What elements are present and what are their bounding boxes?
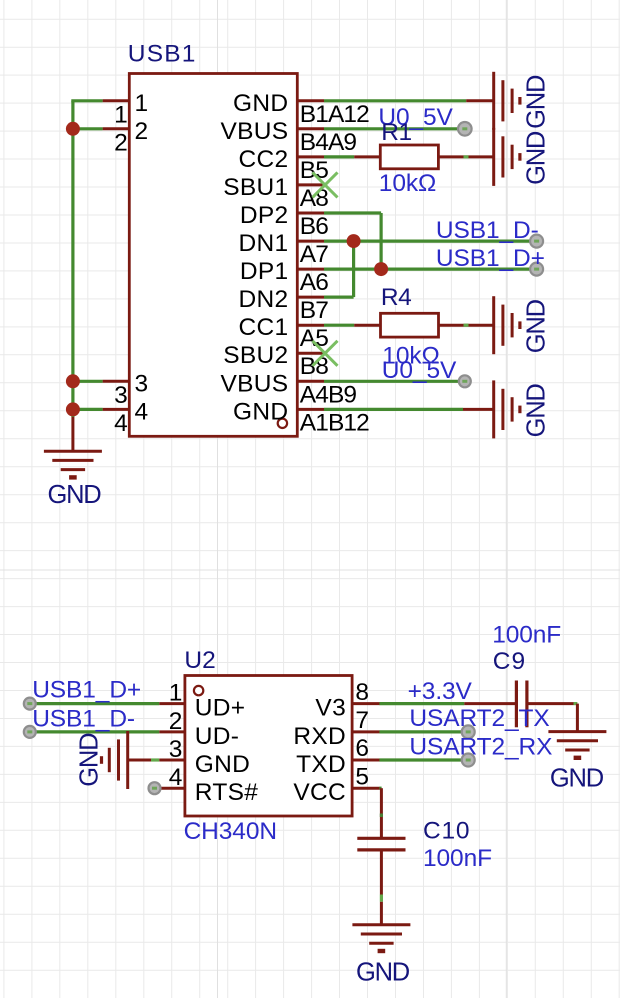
svg-text:USART2_TX: USART2_TX <box>409 705 549 732</box>
unconnected end pin1 <box>24 698 36 710</box>
unconnected end VBUS 2 <box>459 375 471 387</box>
wire GND B1A12 <box>324 99 466 102</box>
svg-text:2: 2 <box>135 118 149 145</box>
svg-text:GND: GND <box>233 398 288 425</box>
svg-text:3: 3 <box>114 382 127 409</box>
svg-text:CC2: CC2 <box>238 146 288 173</box>
wire U2 pin7 net USART2_TX <box>379 730 461 733</box>
ground symbol C10 <box>352 925 410 951</box>
wire U2 pin1 net USB1_D+ <box>30 702 159 705</box>
svg-text:GND: GND <box>550 764 604 792</box>
svg-text:B6: B6 <box>300 213 328 240</box>
R4 value 10k ohm <box>382 343 439 370</box>
U2 pin 5 (VCC) <box>293 763 379 806</box>
junction at pin 4 <box>66 402 80 416</box>
USB1 pin B8 (SBU2) <box>223 342 328 380</box>
IC U2 body <box>185 676 352 817</box>
capacitor C9 <box>464 681 573 728</box>
unconnected end USB1_D+ <box>530 263 543 276</box>
svg-text:+3.3V: +3.3V <box>408 678 473 705</box>
U2 pin 2 (UD-) <box>159 708 239 750</box>
svg-text:100nF: 100nF <box>423 845 492 872</box>
svg-text:RTS#: RTS# <box>195 779 258 806</box>
USB1 pin B5 (CC2) <box>238 146 328 184</box>
unconnected end pin2 <box>24 726 36 738</box>
svg-text:UD+: UD+ <box>195 695 246 722</box>
svg-text:VBUS: VBUS <box>220 370 288 397</box>
net label USB1_D- (U2) <box>32 705 135 732</box>
ground label GND top-right 2 <box>522 131 550 185</box>
ground label GND C10 <box>356 959 410 987</box>
svg-text:4: 4 <box>114 410 127 437</box>
svg-text:C10: C10 <box>423 817 470 844</box>
svg-text:DN2: DN2 <box>238 286 288 313</box>
svg-text:1: 1 <box>135 90 149 117</box>
wire U2 pin5 VCC to C10 <box>379 788 381 838</box>
USB1 pin A7 (DN1) <box>238 230 328 268</box>
svg-text:B4A9: B4A9 <box>300 129 357 156</box>
svg-text:C9: C9 <box>493 648 526 675</box>
net label USB1_D+ <box>436 245 545 272</box>
wire DN2 <box>324 296 354 299</box>
no-connect flag SBU1 <box>313 172 338 197</box>
U2 pin 3 (GND) <box>159 736 250 778</box>
ground symbol top-right 2 <box>494 128 520 186</box>
wire GND A1B12 <box>324 408 494 411</box>
svg-text:VBUS: VBUS <box>220 118 288 145</box>
USB1 pin A4B9 (VBUS) <box>220 370 356 408</box>
junction DP1 <box>374 262 388 276</box>
svg-text:A5: A5 <box>300 325 328 352</box>
USB1 pin A1B12 (GND) <box>233 398 369 436</box>
wire DP2 to DP1 vertical <box>380 213 383 269</box>
svg-text:B7: B7 <box>300 297 328 324</box>
junction at pin 3 <box>66 374 80 388</box>
svg-text:A8: A8 <box>300 185 328 212</box>
no-connect flag SBU2 <box>313 341 338 366</box>
junction at pin 2 <box>66 122 80 136</box>
svg-text:6: 6 <box>355 735 368 762</box>
svg-text:2: 2 <box>114 129 127 156</box>
svg-text:3: 3 <box>135 370 149 397</box>
C9 refdes label <box>493 648 526 675</box>
ground label GND right 3 <box>522 299 550 353</box>
ground label GND C9 <box>550 764 604 792</box>
USB1 pin B6 (DP2) <box>240 202 328 240</box>
wire DP2 <box>324 211 381 214</box>
svg-text:GND: GND <box>233 90 288 117</box>
net label USART2_TX <box>409 705 549 732</box>
USB1 pin A5 (CC1) <box>238 314 328 352</box>
wire U2 pin6 net USART2_RX <box>379 758 461 761</box>
wire pin1 left <box>71 99 102 102</box>
svg-text:8: 8 <box>355 679 368 706</box>
USB1 pin B7 (DN2) <box>238 286 328 324</box>
svg-text:GND: GND <box>522 131 550 185</box>
svg-text:USB1: USB1 <box>128 40 197 67</box>
svg-text:DN1: DN1 <box>238 230 288 257</box>
ground symbol right 3 <box>494 296 520 354</box>
svg-text:GND: GND <box>47 481 101 509</box>
part value CH340N <box>184 818 277 845</box>
svg-text:A6: A6 <box>300 269 328 296</box>
net label U0_5V bottom <box>382 357 457 384</box>
svg-text:USB1_D+: USB1_D+ <box>436 245 545 272</box>
wire CC1 to R4 <box>324 324 381 327</box>
ground label GND right 4 <box>522 384 550 438</box>
U2 pin 4 (RTS#) <box>159 764 258 806</box>
svg-text:USART2_RX: USART2_RX <box>409 734 552 761</box>
wire pin4 left <box>73 408 103 411</box>
ground symbol right 4 <box>494 380 520 438</box>
svg-text:1: 1 <box>169 680 182 707</box>
svg-text:USB1_D+: USB1_D+ <box>32 677 141 704</box>
svg-text:CC1: CC1 <box>238 314 288 341</box>
USB1 pin 1 (left) <box>103 90 149 129</box>
C10 value 100nF <box>423 845 492 872</box>
R4 refdes label <box>381 284 411 311</box>
svg-text:GND: GND <box>356 959 410 987</box>
svg-text:CH340N: CH340N <box>184 818 277 845</box>
svg-text:USB1_D-: USB1_D- <box>436 217 539 244</box>
ground symbol C9 <box>548 732 606 758</box>
U2 pin 1 (UD+) <box>159 680 245 722</box>
wire U2 pin2 net USB1_D- <box>30 730 159 733</box>
ground label GND U2 left <box>75 733 103 787</box>
svg-text:VCC: VCC <box>293 779 346 806</box>
svg-text:B1A12: B1A12 <box>300 101 369 128</box>
svg-text:7: 7 <box>355 707 368 734</box>
wire DP1 net USB1_D+ <box>324 268 530 271</box>
ground label GND bottom-left <box>47 481 101 509</box>
svg-text:SBU1: SBU1 <box>223 174 288 201</box>
svg-text:GND: GND <box>522 75 550 129</box>
ground symbol top-right 1 <box>466 72 520 130</box>
U2 pin 8 (V3) <box>315 679 379 722</box>
R1 value 10k ohm <box>379 170 436 197</box>
USB1 pin B1A12 (GND) <box>233 90 369 128</box>
svg-text:B8: B8 <box>300 353 328 380</box>
svg-text:GND: GND <box>522 299 550 353</box>
wire pin3 left <box>73 380 103 383</box>
capacitor C10 <box>357 838 405 850</box>
wire VBUS A4B9 net U0_5V <box>324 380 458 383</box>
svg-text:A4B9: A4B9 <box>300 381 357 408</box>
resistor R4 <box>381 313 439 337</box>
svg-text:GND: GND <box>522 384 550 438</box>
resistor R1 <box>380 145 438 169</box>
U2 pin 7 (RXD) <box>293 707 379 750</box>
wire R4 to ground <box>439 324 494 327</box>
junction DN1 <box>347 234 361 248</box>
svg-text:U2: U2 <box>184 647 215 674</box>
svg-text:DP1: DP1 <box>240 258 289 285</box>
USB1 pin B4A9 (VBUS) <box>220 118 356 156</box>
USB1 pin 2 (left) <box>103 118 149 157</box>
svg-text:1: 1 <box>114 101 127 128</box>
USB1 pin A8 (SBU1) <box>223 174 328 212</box>
svg-text:R4: R4 <box>381 284 411 311</box>
wire C10 to ground <box>380 850 383 925</box>
wire DN1 to DN2 vertical <box>352 241 355 297</box>
net label USB1_D+ (U2) <box>32 677 141 704</box>
USB1 pin 4 (left) <box>103 398 149 437</box>
ground symbol bottom-left <box>44 417 102 477</box>
net label USB1_D- <box>436 217 539 244</box>
refdes label USB1 <box>128 40 197 67</box>
wire VBUS bus vertical left <box>71 101 74 417</box>
svg-text:V3: V3 <box>315 695 346 722</box>
wire VBUS B4A9 net U0_5V <box>324 127 458 130</box>
svg-text:4: 4 <box>169 764 182 791</box>
C9 value 100nF <box>492 622 561 649</box>
svg-text:GND: GND <box>75 733 103 787</box>
unconnected end VBUS <box>458 122 472 136</box>
svg-text:4: 4 <box>135 398 149 425</box>
wire C9 to ground <box>574 704 578 732</box>
net label +3.3V <box>408 678 473 705</box>
svg-text:5: 5 <box>355 763 368 790</box>
wire R1 to ground <box>438 155 493 158</box>
wire U2 pin3 to ground <box>128 758 160 761</box>
svg-text:UD-: UD- <box>195 723 239 750</box>
wire CC2 to R1 <box>324 155 380 158</box>
svg-text:B5: B5 <box>300 157 328 184</box>
R1 refdes label <box>381 119 411 146</box>
svg-text:100nF: 100nF <box>492 622 561 649</box>
svg-text:A1B12: A1B12 <box>300 409 369 436</box>
U2 pin 6 (TXD) <box>296 735 380 778</box>
wire pin2 left <box>73 127 103 130</box>
svg-text:USB1_D-: USB1_D- <box>32 705 135 732</box>
svg-text:RXD: RXD <box>293 723 346 750</box>
svg-text:TXD: TXD <box>296 751 346 778</box>
unconnected end pin7 <box>462 725 475 738</box>
refdes label U2 <box>184 647 215 674</box>
C10 refdes label <box>423 817 470 844</box>
connector USB1 body <box>129 74 297 437</box>
ground symbol U2 left <box>102 731 128 789</box>
USB1 pin 3 (left) <box>103 370 149 409</box>
svg-text:A7: A7 <box>300 241 328 268</box>
unconnected end pin6 <box>462 754 475 767</box>
svg-text:10kΩ: 10kΩ <box>379 170 436 197</box>
svg-text:DP2: DP2 <box>240 202 289 229</box>
svg-text:3: 3 <box>169 736 182 763</box>
ground label GND top-right 1 <box>522 75 550 129</box>
svg-text:SBU2: SBU2 <box>223 342 288 369</box>
unconnected end USB1_D- <box>530 235 543 248</box>
wire DN1 net USB1_D- <box>324 240 530 243</box>
unconnected end pin4 RTS# <box>149 782 161 794</box>
svg-text:R1: R1 <box>381 119 411 146</box>
svg-text:2: 2 <box>169 708 182 735</box>
USB1 pin A6 (DP1) <box>240 258 328 296</box>
svg-text:U0_5V: U0_5V <box>382 357 457 384</box>
net label U0_5V top <box>378 104 453 131</box>
net label USART2_RX <box>409 734 552 761</box>
wire U2 pin8 net +3.3V <box>379 702 464 705</box>
svg-text:GND: GND <box>195 751 250 778</box>
